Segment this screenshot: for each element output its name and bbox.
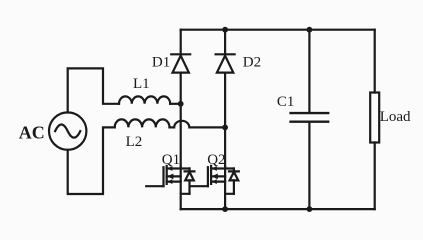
wire L2 with hop over D1 branch bbox=[170, 121, 226, 128]
node A junction dot bbox=[178, 101, 184, 107]
Q2 body diode bbox=[229, 169, 239, 194]
node D2 top junction dot bbox=[222, 27, 228, 33]
svg-text:AC: AC bbox=[19, 122, 45, 142]
wire L1 to node A bbox=[170, 103, 181, 105]
node C1 top junction dot bbox=[307, 27, 313, 33]
Q2 drain stub bbox=[211, 167, 234, 169]
wire D2 branch vertical bbox=[224, 30, 226, 167]
node B junction dot bbox=[222, 125, 228, 131]
Q1 drain-source vertical bbox=[180, 167, 182, 193]
Q1 drain stub bbox=[167, 167, 190, 169]
wire right branch to Load bbox=[374, 30, 376, 209]
Q1 body diode bbox=[185, 169, 195, 194]
transistor Q1 bbox=[146, 166, 194, 209]
capacitor C1 bbox=[291, 113, 329, 122]
Q1 body stub bbox=[167, 175, 181, 177]
wire AC loop top bbox=[68, 68, 119, 112]
inductor L1 bbox=[119, 96, 170, 103]
Q2 gate bar bbox=[207, 167, 209, 186]
Q2 drain arrow bbox=[212, 166, 217, 171]
Q2 source step bbox=[225, 194, 234, 209]
wire AC loop bottom bbox=[68, 127, 115, 194]
Q2 body stub bbox=[211, 175, 225, 177]
Q2 source stub bbox=[211, 181, 225, 183]
svg-text:D2: D2 bbox=[243, 55, 261, 71]
Q1 source arrow bbox=[167, 179, 172, 184]
inductor L2 bbox=[115, 119, 170, 127]
node Q2 source junction dot bbox=[222, 206, 228, 212]
Q2 channel bar bbox=[210, 166, 212, 184]
wire bottom rail bbox=[181, 208, 375, 210]
transistor Q2 bbox=[191, 166, 239, 209]
svg-text:L1: L1 bbox=[133, 76, 150, 92]
Q1 source step bbox=[181, 194, 190, 209]
diode D1 bbox=[171, 53, 190, 55]
svg-text:L2: L2 bbox=[126, 134, 143, 150]
svg-text:Load: Load bbox=[380, 109, 411, 125]
Q2 source arrow bbox=[212, 179, 217, 184]
AC source V1 circle bbox=[49, 112, 86, 149]
svg-text:Q2: Q2 bbox=[207, 152, 225, 168]
Q1 source stub bbox=[167, 181, 181, 183]
wire D1 branch vertical bbox=[180, 30, 182, 167]
Q2 body arrow bbox=[212, 174, 218, 180]
Q1 channel bar bbox=[166, 166, 168, 184]
load RL bbox=[370, 93, 379, 143]
svg-text:C1: C1 bbox=[277, 94, 295, 110]
svg-text:Q1: Q1 bbox=[162, 152, 180, 168]
Q1 gate lead bbox=[146, 185, 163, 187]
Q1 drain arrow bbox=[167, 166, 172, 171]
wire C1 branch bbox=[308, 30, 310, 209]
node C1 bottom junction dot bbox=[307, 206, 313, 212]
wire top rail DC+ bbox=[181, 29, 375, 31]
Q1 body arrow bbox=[167, 174, 173, 180]
Q2 drain-source vertical bbox=[224, 167, 226, 193]
diode D2 bbox=[216, 53, 235, 55]
AC sine wave bbox=[55, 125, 80, 138]
Q1 gate bar bbox=[162, 167, 164, 186]
Q2 gate lead bbox=[191, 185, 208, 187]
svg-text:D1: D1 bbox=[152, 55, 170, 71]
